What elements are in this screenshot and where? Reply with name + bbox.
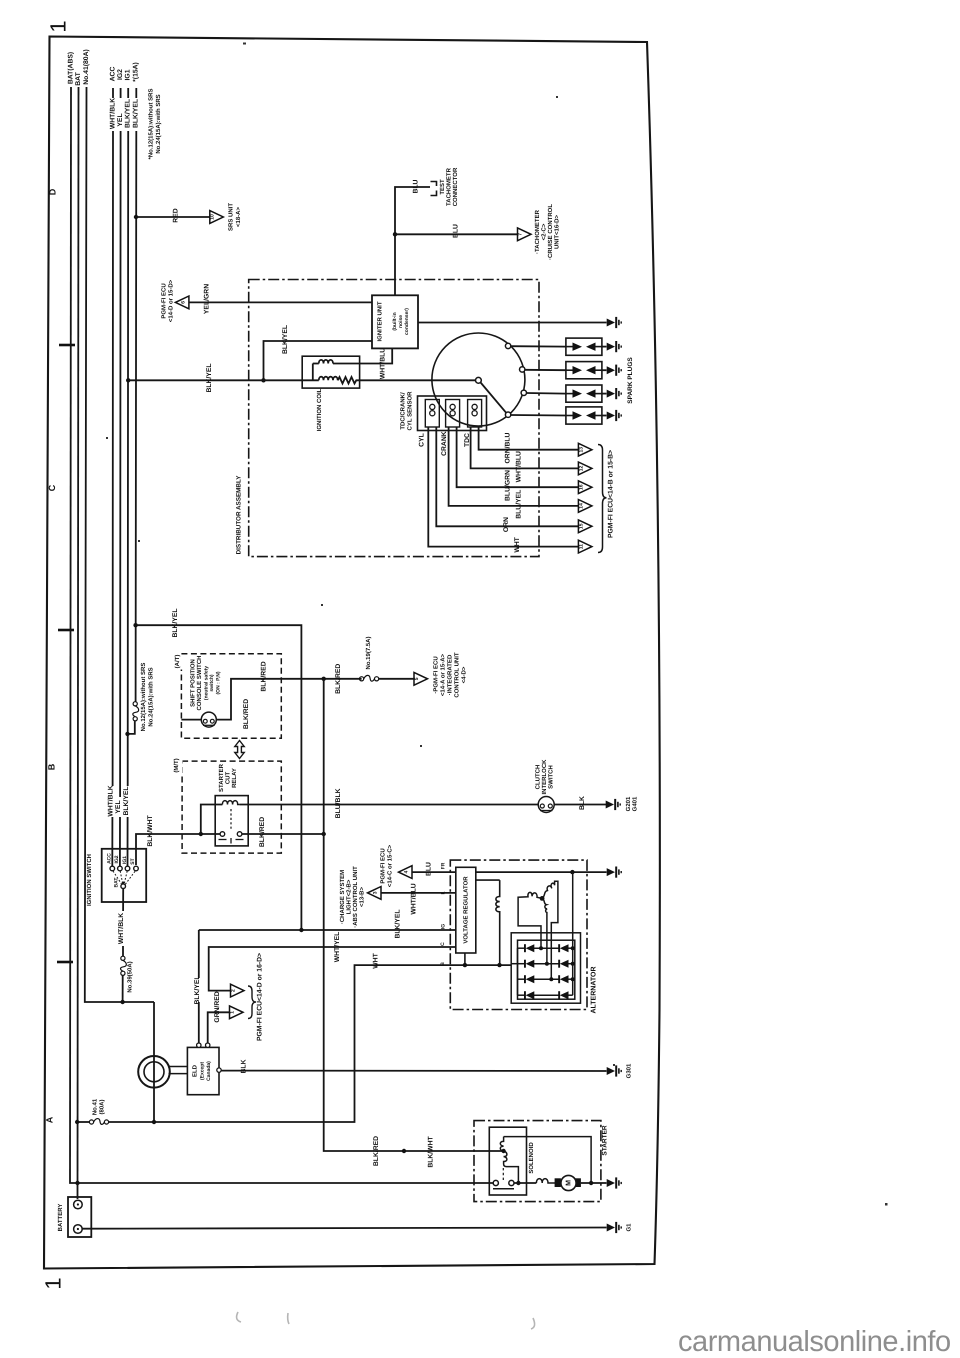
solenoid hold-in coil bbox=[500, 1137, 503, 1151]
alternator stator star winding bbox=[518, 881, 558, 979]
scan marks bbox=[237, 1312, 535, 1329]
svg-text:SPARK PLUGS: SPARK PLUGS bbox=[627, 357, 634, 404]
rectifier row wires bbox=[511, 948, 573, 995]
wire ORN/BLU bbox=[479, 427, 579, 450]
wire BLK/YEL main to ignition coil bbox=[128, 379, 319, 381]
svg-text:(80A): (80A) bbox=[99, 1099, 106, 1114]
svg-text:DISTRIBUTOR ASSEMBLY: DISTRIBUTOR ASSEMBLY bbox=[236, 475, 243, 555]
svg-text:6: 6 bbox=[181, 301, 187, 304]
wire contact to motor bbox=[514, 1182, 536, 1184]
ground (starter) bbox=[607, 1177, 622, 1188]
wire BLK/RED vertical to starter bbox=[324, 679, 504, 1151]
ground (plug 2) bbox=[607, 365, 622, 376]
node junction relay coil tap bbox=[199, 832, 203, 836]
svg-text:BLK/YEL: BLK/YEL bbox=[123, 786, 130, 815]
connector 6 from PGM-FI ECU (YEL/GRN) bbox=[175, 296, 189, 309]
wire into switch bbox=[181, 719, 201, 721]
node junction WHT/BLK into rail3 link bbox=[120, 1000, 124, 1004]
rotor arm bbox=[481, 383, 507, 413]
node junction line4/SRS branch bbox=[134, 215, 138, 219]
wire WHT/BLK from BAT terminal bbox=[122, 889, 124, 957]
svg-text:RED: RED bbox=[173, 208, 180, 222]
solenoid contact 2 bbox=[509, 1180, 514, 1185]
node junction on BAT rail bbox=[75, 1120, 79, 1124]
cap terminal 2 bbox=[520, 367, 525, 372]
svg-text:G301: G301 bbox=[626, 1063, 633, 1078]
svg-text:CRANK: CRANK bbox=[441, 431, 448, 456]
wire WHT/BLU igniter to coil bbox=[333, 348, 392, 363]
ELD terminal 1 bbox=[197, 1043, 201, 1047]
spark plug 4 bbox=[566, 407, 602, 424]
svg-text:BAT(ABS): BAT(ABS) bbox=[67, 52, 74, 84]
svg-text:<14-D or 15-D>: <14-D or 15-D> bbox=[168, 279, 175, 322]
svg-text:BAT: BAT bbox=[114, 878, 120, 888]
connector 7 to tachometer bbox=[518, 228, 532, 241]
solenoid plunger dashes bbox=[502, 1168, 504, 1182]
svg-text:BLU/GRN: BLU/GRN bbox=[505, 470, 512, 501]
svg-text:SHIFT POSITION: SHIFT POSITION bbox=[190, 659, 197, 707]
connector 15 to ECU bbox=[578, 520, 592, 533]
cap terminal 1 bbox=[505, 343, 510, 348]
wire plug 2 bbox=[525, 369, 566, 371]
wire ACC feed bbox=[111, 88, 114, 866]
svg-text:YEL: YEL bbox=[117, 113, 124, 126]
svg-text:G201: G201 bbox=[625, 796, 632, 811]
svg-text:<14-C or 15-C>: <14-C or 15-C> bbox=[387, 844, 394, 887]
connector 16 to ECU bbox=[578, 481, 592, 494]
starter cut relay RL1 bbox=[215, 796, 248, 846]
node junction on IG1 bbox=[126, 378, 130, 382]
svg-text:BLK/YEL: BLK/YEL bbox=[194, 975, 201, 1004]
wire BLU/YEL bbox=[449, 427, 579, 506]
wire BLK/YEL branch to igniter bbox=[264, 341, 373, 380]
svg-text:PGM-FI ECU: PGM-FI ECU bbox=[380, 848, 387, 883]
ground (plug 3) bbox=[607, 388, 622, 399]
ground G301 bbox=[607, 1065, 622, 1076]
svg-text:WHT/YEL: WHT/YEL bbox=[334, 932, 341, 963]
svg-text:BLU/YEL: BLU/YEL bbox=[516, 490, 523, 519]
svg-text:carmanualsonline.info: carmanualsonline.info bbox=[678, 1326, 951, 1358]
solenoid box bbox=[489, 1127, 526, 1195]
svg-text:BLK/WHT: BLK/WHT bbox=[147, 814, 154, 846]
wire WHT/BLU L bbox=[381, 892, 456, 894]
svg-text:STARTER: STARTER bbox=[218, 763, 225, 792]
grid tick C/B bbox=[58, 629, 74, 632]
wire plug 1 bbox=[511, 345, 566, 347]
svg-text:BLK/RED: BLK/RED bbox=[259, 817, 266, 847]
ground (plug 1) bbox=[607, 341, 622, 352]
node junction motor/ground bbox=[589, 1181, 593, 1185]
wire coil to distributor rotor bbox=[360, 379, 476, 381]
M/T starter cut relay box bbox=[182, 761, 281, 853]
voltage regulator box bbox=[456, 867, 476, 953]
label (M/T) bbox=[173, 758, 183, 773]
node stator star point bbox=[540, 896, 545, 901]
brace ECU pair bbox=[248, 986, 256, 1019]
cap terminal 4 bbox=[505, 412, 510, 417]
svg-text:SOLENOID: SOLENOID bbox=[528, 1142, 535, 1174]
svg-text:·CHARGE SYSTEM: ·CHARGE SYSTEM bbox=[339, 870, 346, 924]
svg-text:IGNITER UNIT: IGNITER UNIT bbox=[377, 301, 384, 341]
node junctions rectifier bbox=[539, 946, 543, 950]
connector 11 to ECU bbox=[578, 540, 592, 553]
svg-text:BLU: BLU bbox=[413, 179, 420, 193]
svg-text:15: 15 bbox=[578, 523, 584, 529]
wire plug 4 bbox=[511, 414, 566, 417]
svg-text:4: 4 bbox=[404, 870, 410, 873]
node junction BLK/RED vertical bbox=[322, 677, 326, 681]
svg-text:condenser): condenser) bbox=[404, 308, 410, 335]
svg-text:1: 1 bbox=[230, 1011, 236, 1014]
fuse No.41(80A) bbox=[89, 1119, 108, 1125]
svg-text:BLK/RED: BLK/RED bbox=[261, 661, 268, 691]
spark plug 3 bbox=[566, 385, 602, 402]
igniter unit U1 bbox=[372, 295, 418, 348]
connector 2 to ECU bbox=[231, 984, 245, 997]
svg-text:(ON : P,N): (ON : P,N) bbox=[216, 671, 222, 694]
svg-text:ALTERNATOR: ALTERNATOR bbox=[591, 966, 598, 1013]
node junction VR bottom / B wire bbox=[464, 953, 466, 965]
rectifier outer box bbox=[511, 933, 580, 1003]
battery BT1 bbox=[68, 1197, 91, 1237]
node junction into BLK/RED vertical bbox=[322, 832, 326, 836]
motor field coil bbox=[536, 1179, 555, 1183]
wire ORN bbox=[436, 427, 578, 526]
svg-text:SRS UNIT: SRS UNIT bbox=[228, 203, 235, 231]
svg-text:WHT/BLK: WHT/BLK bbox=[108, 785, 115, 816]
svg-text:BLK/YEL: BLK/YEL bbox=[282, 325, 289, 354]
node junction fused line into IG1 bbox=[125, 732, 129, 736]
svg-text:C: C bbox=[47, 484, 57, 491]
svg-text:BLU: BLU bbox=[425, 862, 432, 876]
svg-text:BLK/RED: BLK/RED bbox=[373, 1136, 380, 1166]
svg-text:YEL/GRN: YEL/GRN bbox=[204, 284, 211, 314]
wire BLK/YEL to ELD bbox=[199, 930, 456, 1043]
spark plug 1 bbox=[566, 338, 602, 355]
wire IG1 feed bbox=[127, 88, 130, 866]
wire IG2 feed bbox=[119, 88, 122, 866]
svg-text:No.24(15A):with SRS: No.24(15A):with SRS bbox=[155, 94, 162, 153]
wire BLU igniter to test tach connector bbox=[395, 187, 430, 295]
svg-text:No.12(15A):without SRS: No.12(15A):without SRS bbox=[140, 663, 147, 732]
wire to relay coil bbox=[201, 805, 223, 835]
test tachometer connector bbox=[431, 182, 437, 196]
wire solenoid hold winding to motor node bbox=[504, 1137, 591, 1183]
svg-text:<13-B>: <13-B> bbox=[359, 886, 366, 907]
node junction ELD drop bbox=[152, 1120, 156, 1124]
ground G1 bbox=[607, 1222, 622, 1233]
wire BLU to tachometer bbox=[395, 233, 518, 235]
svg-text:BLK/YEL: BLK/YEL bbox=[172, 608, 179, 637]
svg-text:IG2: IG2 bbox=[117, 69, 124, 80]
svg-text:*No.12(15A):without SRS: *No.12(15A):without SRS bbox=[148, 88, 155, 159]
svg-text:10: 10 bbox=[210, 214, 216, 220]
wire RED branch to SRS unit bbox=[136, 216, 210, 218]
svg-text:CUT: CUT bbox=[225, 772, 232, 785]
svg-text:BLK/YEL: BLK/YEL bbox=[394, 909, 401, 938]
ELD current sensor ring bbox=[138, 1056, 170, 1088]
svg-text:IG1: IG1 bbox=[125, 69, 132, 80]
wire WHT/BLU bbox=[471, 427, 579, 468]
solenoid contact 1 bbox=[493, 1180, 498, 1185]
wire YEL/GRN to igniter bbox=[189, 301, 372, 303]
cap terminal 3 bbox=[521, 390, 526, 395]
svg-text:BLK/WHT: BLK/WHT bbox=[427, 1135, 434, 1167]
svg-text:G1: G1 bbox=[626, 1223, 633, 1232]
wire regulator to field bbox=[476, 879, 500, 881]
svg-text:13: 13 bbox=[578, 447, 584, 453]
connector 1 to ECU bbox=[230, 1006, 244, 1019]
grid tick B/A bbox=[57, 961, 73, 964]
svg-text:ORN: ORN bbox=[503, 517, 510, 532]
svg-text:GRN/RED: GRN/RED bbox=[214, 991, 221, 1022]
connector 3 L charge light bbox=[368, 887, 382, 900]
svg-text:WHT/BLK: WHT/BLK bbox=[118, 913, 125, 944]
svg-text:11: 11 bbox=[578, 544, 584, 550]
svg-text:IG: IG bbox=[441, 924, 447, 929]
svg-text:C: C bbox=[440, 942, 446, 946]
ELD core link bars bbox=[169, 1066, 188, 1068]
svg-text:ACC: ACC bbox=[107, 853, 113, 864]
node pull-in to contact bbox=[516, 1181, 520, 1185]
node junction BLK/YEL bbox=[299, 928, 303, 932]
svg-text:ST: ST bbox=[130, 858, 136, 864]
wire igniter output to ground bbox=[418, 322, 607, 324]
node junction BLU bbox=[393, 232, 397, 236]
wire No.41(80A) rail bbox=[85, 87, 154, 1002]
svg-text:switch): switch) bbox=[209, 674, 215, 692]
ground (alternator) bbox=[607, 867, 622, 878]
wire fuse to junction bbox=[122, 975, 124, 1002]
svg-text:M: M bbox=[565, 1180, 572, 1186]
A/T M/T selector arrow bbox=[235, 741, 244, 759]
svg-text:ACC: ACC bbox=[109, 67, 116, 82]
connector 13 to ECU bbox=[578, 443, 592, 456]
svg-text:YEL: YEL bbox=[115, 800, 122, 813]
svg-text:Canada): Canada) bbox=[206, 1061, 212, 1081]
node junction BLK/YEL bbox=[133, 623, 137, 627]
svg-text:1: 1 bbox=[41, 1277, 66, 1289]
svg-text:CONTROL UNIT: CONTROL UNIT bbox=[454, 652, 461, 698]
wire BLK/WHT from ST terminal bbox=[136, 834, 220, 865]
wire BLK/RED relay contact output bbox=[242, 833, 324, 835]
connector to SRS unit bbox=[210, 211, 224, 224]
svg-text:ORN/BLU: ORN/BLU bbox=[505, 432, 512, 463]
svg-text:BLK: BLK bbox=[240, 1059, 247, 1073]
svg-text:CYL SENSOR: CYL SENSOR bbox=[407, 391, 414, 431]
svg-text:ELD: ELD bbox=[192, 1064, 199, 1077]
svg-text:STARTER: STARTER bbox=[602, 1125, 609, 1156]
svg-text:RELAY: RELAY bbox=[231, 768, 238, 788]
svg-text:BLK/YEL: BLK/YEL bbox=[206, 363, 213, 392]
svg-text:BLK: BLK bbox=[579, 796, 586, 810]
svg-text:·ABS CONTROL UNIT: ·ABS CONTROL UNIT bbox=[352, 866, 359, 928]
wire BLK/RED from switch bbox=[216, 679, 361, 720]
svg-text:7: 7 bbox=[518, 233, 524, 236]
svg-text:BLU/BLK: BLU/BLK bbox=[335, 788, 342, 818]
svg-text:5: 5 bbox=[414, 677, 420, 680]
wire BAT(ABS) rail bbox=[70, 87, 71, 1182]
wire plug 3 bbox=[527, 392, 566, 395]
svg-text:WHT/BLU: WHT/BLU bbox=[516, 451, 523, 482]
svg-text:CONSOLE SWITCH: CONSOLE SWITCH bbox=[196, 656, 203, 711]
svg-text:<14-A or 15-A>: <14-A or 15-A> bbox=[440, 653, 447, 696]
svg-text:3: 3 bbox=[373, 891, 379, 894]
fuse No.12/No.24 (15A) bbox=[133, 702, 139, 721]
svg-text:·INTEGRATED: ·INTEGRATED bbox=[447, 654, 454, 695]
distributor assembly dash-dot box bbox=[249, 280, 539, 557]
svg-text:UNIT<16-D>: UNIT<16-D> bbox=[554, 215, 561, 250]
svg-text:CYL: CYL bbox=[419, 433, 426, 447]
node solenoid coil tap bbox=[501, 1149, 505, 1153]
svg-text:(M/T): (M/T) bbox=[173, 758, 180, 772]
svg-text:IG2: IG2 bbox=[114, 855, 120, 863]
rectifier diodes bbox=[524, 944, 569, 999]
connector 14 to ECU bbox=[578, 500, 592, 513]
svg-text:PGM-FI ECU<14-D or 16-D>: PGM-FI ECU<14-D or 16-D> bbox=[257, 953, 264, 1041]
wire BLU/BLK relay coil to clutch switch bbox=[240, 804, 539, 806]
wire WHT to alternator B bbox=[109, 965, 511, 1122]
svg-text:No.24(15A):with SRS: No.24(15A):with SRS bbox=[147, 667, 154, 726]
svg-text:CONNECTOR: CONNECTOR bbox=[452, 167, 459, 206]
svg-text:TEST: TEST bbox=[439, 179, 446, 195]
spark plug 2 bbox=[566, 362, 602, 379]
svg-text:WHT/BLU: WHT/BLU bbox=[379, 348, 386, 379]
rotor center bbox=[476, 377, 482, 383]
svg-text:IGNITION SWITCH: IGNITION SWITCH bbox=[86, 854, 93, 906]
svg-text:BLK/YEL: BLK/YEL bbox=[125, 99, 132, 128]
shift position console switch S1 bbox=[201, 712, 216, 727]
svg-text:(Except: (Except bbox=[200, 1062, 206, 1080]
grid tick D/C bbox=[59, 344, 75, 347]
svg-text:IGNITION COIL: IGNITION COIL bbox=[316, 388, 323, 431]
svg-text:BLK/RED: BLK/RED bbox=[243, 699, 250, 729]
svg-text:WHT/BLU: WHT/BLU bbox=[411, 883, 418, 914]
svg-text:BLK/YEL: BLK/YEL bbox=[133, 99, 140, 128]
svg-text:16: 16 bbox=[578, 484, 584, 490]
svg-text:WHT/BLK: WHT/BLK bbox=[109, 98, 116, 129]
wire BLK ELD to ground G301 bbox=[221, 1070, 606, 1072]
wire battery negative to G1 bbox=[82, 1228, 606, 1229]
svg-text:INTERLOCK: INTERLOCK bbox=[541, 759, 548, 795]
node junction rectifier bbox=[570, 870, 574, 874]
svg-text:<4-D>: <4-D> bbox=[461, 666, 468, 683]
node splice BLK/RED-BLK/WHT bbox=[402, 1149, 406, 1153]
svg-text:·CRUISE CONTROL: ·CRUISE CONTROL bbox=[547, 204, 554, 260]
ignition switch SW1 bbox=[102, 849, 147, 902]
ground G201 G401 bbox=[606, 799, 621, 810]
wire ST/coil feed (fuse 15A) bbox=[128, 88, 137, 734]
svg-text:PGM-FI ECU: PGM-FI ECU bbox=[161, 283, 168, 318]
svg-text:No.39(50A): No.39(50A) bbox=[127, 961, 134, 992]
svg-text:No.41: No.41 bbox=[92, 1098, 99, 1115]
svg-text:12: 12 bbox=[578, 465, 584, 471]
brace ECU group bbox=[598, 445, 607, 553]
wire starter feed from battery rail bbox=[70, 1182, 493, 1183]
A/T shift position box bbox=[181, 654, 281, 739]
ELD terminal 3 bbox=[217, 1068, 221, 1072]
svg-text:14: 14 bbox=[578, 503, 584, 509]
svg-text:<2-C>: <2-C> bbox=[541, 223, 548, 240]
wire plug grounds bbox=[602, 346, 607, 348]
wire rail3 link down to ELD bbox=[153, 1002, 155, 1122]
svg-text:SWITCH: SWITCH bbox=[548, 765, 555, 789]
starter dash-dot box bbox=[474, 1121, 601, 1202]
wire BAT rail bbox=[78, 87, 79, 1199]
svg-text:BAT: BAT bbox=[75, 71, 82, 85]
ignition coil T1 bbox=[302, 356, 359, 388]
ELD box bbox=[187, 1047, 219, 1094]
fuse No.19(7.5A) bbox=[360, 675, 379, 681]
svg-text:2: 2 bbox=[231, 989, 237, 992]
page border frame bbox=[44, 37, 660, 1269]
svg-text:LIGHT<2-B>: LIGHT<2-B> bbox=[346, 879, 353, 914]
svg-text:BATTERY: BATTERY bbox=[57, 1204, 64, 1232]
wire BLU/GRN bbox=[457, 427, 579, 487]
svg-text:CLUTCH: CLUTCH bbox=[535, 765, 542, 790]
ELD terminal 2 bbox=[206, 1043, 210, 1047]
wire WHT bbox=[428, 427, 578, 547]
svg-text:TDC/CRANK/: TDC/CRANK/ bbox=[400, 392, 407, 430]
svg-text:D: D bbox=[48, 188, 58, 195]
wire GRN/RED ELD to ECU bbox=[208, 1012, 230, 1043]
svg-text:·TACHOMETER: ·TACHOMETER bbox=[534, 209, 541, 254]
connector 4 FR to ECU bbox=[399, 866, 413, 879]
rectifier inner box bbox=[518, 940, 575, 999]
wire fuse to connector bbox=[379, 678, 414, 680]
svg-text:No.19(7.5A): No.19(7.5A) bbox=[365, 636, 372, 669]
svg-text:G401: G401 bbox=[632, 796, 639, 811]
clutch interlock switch S2 bbox=[538, 797, 554, 813]
svg-text:B: B bbox=[440, 962, 446, 966]
svg-text:A: A bbox=[45, 1116, 55, 1123]
rectifier rails bbox=[518, 872, 573, 995]
wire BLU FR bbox=[412, 871, 456, 873]
svg-text:(A/T): (A/T) bbox=[174, 655, 181, 669]
svg-text:1: 1 bbox=[46, 20, 71, 32]
solenoid pull-in coil bbox=[504, 1151, 519, 1183]
fuse No.39(50A) bbox=[121, 956, 127, 975]
svg-text:TACHOMETR: TACHOMETR bbox=[446, 167, 453, 206]
svg-text:VOLTAGE REGULATOR: VOLTAGE REGULATOR bbox=[463, 876, 470, 944]
alternator dash-dot box bbox=[450, 860, 587, 1009]
starter motor M bbox=[555, 1175, 607, 1190]
connector 12 to ECU bbox=[578, 462, 592, 475]
node junction BAT rail bbox=[75, 1181, 79, 1185]
wire No.41 fused feed bbox=[77, 1121, 89, 1123]
svg-text:PGM-FI ECU<14-B or 15-B>: PGM-FI ECU<14-B or 15-B> bbox=[608, 450, 615, 538]
svg-text:WHT: WHT bbox=[514, 536, 521, 552]
svg-text:*(15A): *(15A) bbox=[133, 62, 140, 82]
wire BLK clutch switch to ground bbox=[554, 804, 606, 806]
connector 5 to PGM-FI ECU / integrated control unit bbox=[414, 672, 428, 685]
svg-text:BLK/RED: BLK/RED bbox=[335, 664, 342, 694]
svg-text:WHT: WHT bbox=[372, 952, 379, 968]
distributor cap bbox=[432, 333, 525, 426]
TDC/CRANK/CYL sensor bbox=[418, 396, 487, 431]
node junction BLK/YEL bbox=[261, 378, 265, 382]
svg-text:·PGM-FI ECU: ·PGM-FI ECU bbox=[433, 656, 440, 693]
label (A/T) bbox=[174, 655, 183, 670]
svg-text:B: B bbox=[47, 763, 57, 770]
alternator field coil to B wire bbox=[496, 880, 500, 965]
svg-text:IG1: IG1 bbox=[122, 856, 128, 864]
svg-text:No.41(80A): No.41(80A) bbox=[83, 49, 90, 85]
wire FR through to ground bbox=[476, 871, 607, 873]
ground (plug 4) bbox=[607, 410, 622, 421]
wire WHT/YEL ECU to alternator C bbox=[209, 947, 456, 991]
wire BLK/YEL branch to alternator IG bbox=[136, 625, 302, 930]
